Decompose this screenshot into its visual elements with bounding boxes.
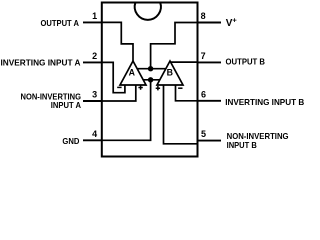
wire pin2 to A inverting input <box>102 62 125 92</box>
svg-text:INPUT B: INPUT B <box>227 140 257 150</box>
svg-text:INPUT A: INPUT A <box>51 100 81 110</box>
op-amp B triangle <box>157 61 183 85</box>
svg-text:5: 5 <box>201 129 206 139</box>
pin 7 lead line <box>198 61 222 63</box>
svg-text:V+: V+ <box>226 15 238 29</box>
wire B non-inverting input down to pin5 <box>164 85 198 144</box>
IC package U1 (DIP-8 body, top view) <box>102 3 198 157</box>
op-amp B plus sign <box>156 86 160 90</box>
svg-text:8: 8 <box>201 11 206 21</box>
svg-text:B: B <box>167 68 173 78</box>
svg-text:1: 1 <box>92 11 97 21</box>
pin 4 lead line <box>83 139 102 141</box>
junction dot upper (V+ rail) <box>148 66 153 71</box>
svg-text:OUTPUT B: OUTPUT B <box>226 57 266 67</box>
wire op-amp B output to pin7 <box>170 61 198 63</box>
svg-text:INVERTING INPUT B: INVERTING INPUT B <box>225 97 304 107</box>
svg-text:2: 2 <box>92 51 97 61</box>
svg-text:6: 6 <box>201 89 206 99</box>
op-amp A minus sign <box>117 86 121 88</box>
junction dot lower (GND rail) <box>148 77 153 82</box>
notch (pin-1 index semicircle) <box>135 3 161 20</box>
pin 5 lead line <box>198 140 222 142</box>
pin 8 lead line <box>198 22 222 24</box>
svg-text:GND: GND <box>62 136 79 146</box>
svg-text:OUTPUT A: OUTPUT A <box>41 18 80 28</box>
op-amp A plus sign <box>138 85 142 89</box>
wire pin8 V+ to upper supply rail <box>151 23 198 69</box>
wire lower rail between A and B <box>143 79 161 81</box>
svg-text:7: 7 <box>201 51 206 61</box>
op-amp B minus sign <box>178 87 182 89</box>
svg-text:3: 3 <box>92 90 97 100</box>
wire GND rail down to pin 4 <box>102 80 151 141</box>
svg-text:4: 4 <box>92 129 97 139</box>
svg-text:INVERTING INPUT A: INVERTING INPUT A <box>1 58 81 68</box>
pin 2 lead line <box>83 61 102 63</box>
pin 3 lead line <box>83 100 102 102</box>
op-amp A triangle <box>120 61 146 85</box>
wire upper supply rail between A and B <box>137 68 166 70</box>
svg-text:A: A <box>129 68 136 78</box>
pin 1 lead line <box>83 21 102 23</box>
pin 6 lead line <box>198 100 222 102</box>
wire pin3 to A non-inverting input <box>102 85 136 101</box>
wire pin1 to op-amp A output <box>102 22 133 61</box>
wire pin6 to B inverting input <box>176 85 198 101</box>
